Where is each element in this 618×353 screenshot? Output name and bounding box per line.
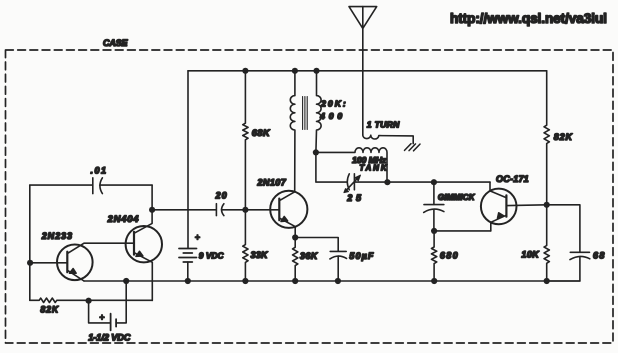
svg-text:36K: 36K <box>300 251 319 261</box>
resistor R3 82K right <box>544 71 549 205</box>
svg-text:68: 68 <box>593 250 604 260</box>
junction 68K top rail <box>242 68 248 74</box>
junction node 2N233 base <box>27 260 33 266</box>
variable capacitor C1 25 <box>344 174 361 193</box>
svg-text:68K: 68K <box>252 128 271 138</box>
wire 2N404 collector node to coupling cap <box>152 209 216 211</box>
battery B2 1-1/2 VDC <box>89 281 127 330</box>
resistor R6 36K <box>293 238 298 282</box>
inductor L2 100 MHz tank coil <box>316 148 387 182</box>
junction 33K bottom rail <box>242 278 248 284</box>
junction 10K bottom rail <box>544 278 550 284</box>
svg-text:.01: .01 <box>91 165 107 175</box>
junction node tank right <box>384 179 390 185</box>
resistor R1 68K <box>243 71 248 210</box>
wire top supply rail <box>188 70 547 72</box>
svg-text:680: 680 <box>440 250 458 260</box>
resistor R4 10K <box>544 205 549 281</box>
svg-text:82K: 82K <box>554 132 574 142</box>
svg-text:1 TURN: 1 TURN <box>367 119 400 129</box>
svg-text:82K: 82K <box>40 305 58 315</box>
svg-text:2N107: 2N107 <box>256 178 286 188</box>
capacitor C6 .01 <box>93 178 152 194</box>
junction 50uF bottom rail <box>335 278 341 284</box>
junction node 2N107 base <box>242 207 248 213</box>
junction node OC-171 base divider <box>544 202 550 208</box>
junction node 2N404 collector <box>149 207 155 213</box>
transistor Q4 OC-171 <box>481 182 547 231</box>
capacitor C2 gimmick <box>424 182 444 231</box>
wire bottom common rail <box>84 280 580 282</box>
capacitor C4 50uF <box>295 238 346 282</box>
junction 36K bottom rail <box>292 278 298 284</box>
resistor R5 33K <box>243 210 248 281</box>
junction transformer secondary top rail <box>313 68 319 74</box>
transistor Q1 2N233 <box>30 243 134 281</box>
svg-text:http://www.qsl.net/va3iul: http://www.qsl.net/va3iul <box>450 11 607 26</box>
junction transformer primary top rail <box>292 68 298 74</box>
svg-text:9 VDC: 9 VDC <box>199 250 225 260</box>
wire tank capacitor branch <box>316 152 347 182</box>
svg-text:50µF: 50µF <box>349 251 374 261</box>
junction gimmick bottom emitter node <box>431 228 437 234</box>
svg-text:20K:: 20K: <box>320 98 346 108</box>
svg-text:20: 20 <box>215 190 227 200</box>
wire gimmick node to OC-171 emitter <box>434 230 491 232</box>
transformer T1 core <box>303 97 308 130</box>
battery B1 9VDC <box>179 233 200 281</box>
svg-text:33K: 33K <box>251 250 270 260</box>
wire tank node to OC-171 collector <box>354 181 490 183</box>
resistor R7 82K left <box>30 298 153 302</box>
wire left drop from rail to 9VDC battery <box>187 71 189 249</box>
svg-text:25: 25 <box>346 193 362 203</box>
transformer T1 primary winding <box>290 71 295 192</box>
wire .01 cap down to 2N404 collector node <box>151 185 153 210</box>
capacitor C3 68 <box>547 205 590 281</box>
junction gimmick top <box>431 179 437 185</box>
svg-text:TANK: TANK <box>359 164 387 173</box>
svg-text:+: + <box>195 233 200 243</box>
svg-text:2N404: 2N404 <box>107 213 140 224</box>
wire 2N233 base feedback line <box>30 184 93 186</box>
antenna E1 <box>349 7 377 135</box>
svg-text:GIMMICK: GIMMICK <box>438 193 476 202</box>
junction 9VDC bottom rail <box>185 278 191 284</box>
wire left vertical 2N233 base branch <box>29 185 31 300</box>
ground <box>405 144 421 151</box>
transistor Q3 2N107 <box>245 191 307 238</box>
junction node tank left <box>313 149 319 155</box>
svg-text:2N233: 2N233 <box>41 231 72 241</box>
inductor L1 1-turn link coil <box>363 135 413 144</box>
capacitor C5 20 coupling <box>216 204 245 216</box>
svg-text:OC-171: OC-171 <box>496 174 529 184</box>
svg-text:400: 400 <box>319 111 342 121</box>
junction 1-1/2VDC positive bottom rail <box>123 278 129 284</box>
svg-text:1-1/2 VDC: 1-1/2 VDC <box>88 332 130 342</box>
resistor R2 680 <box>431 231 436 281</box>
junction 680 bottom rail <box>431 278 437 284</box>
junction 82K battery node <box>86 298 92 304</box>
svg-text:10K: 10K <box>521 250 540 260</box>
transformer T1 secondary winding <box>316 71 321 153</box>
svg-text:+: + <box>99 312 104 322</box>
transistor Q2 2N404 <box>126 210 162 301</box>
junction node 2N107 emitter <box>292 234 298 240</box>
svg-text:CASE: CASE <box>103 38 128 48</box>
